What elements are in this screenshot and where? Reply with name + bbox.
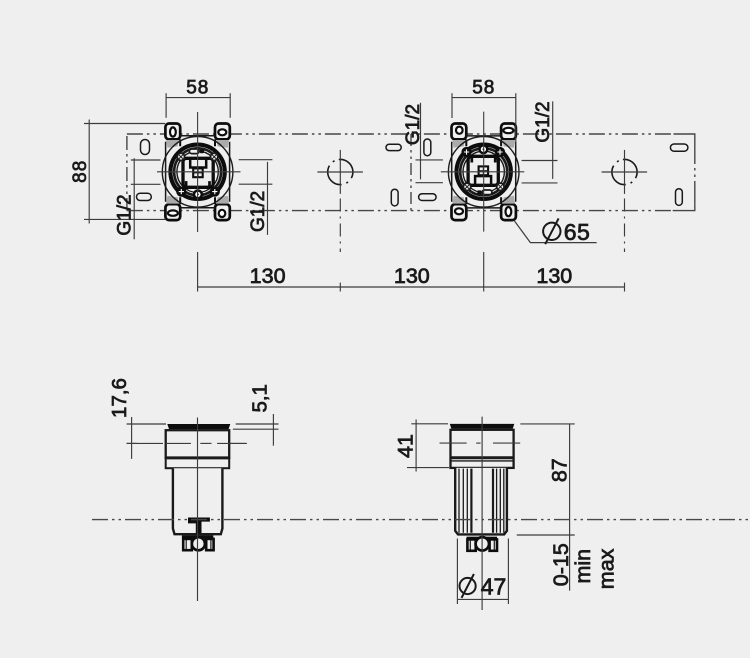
- svg-text:max: max: [595, 548, 619, 589]
- rail slot A (vertical, left): [141, 140, 150, 155]
- G1/2 port callout valve2 left: [403, 103, 443, 183]
- side view A: valve body: [173, 468, 223, 534]
- svg-text:88: 88: [70, 160, 91, 183]
- dimension 41 (side view B): [393, 420, 449, 472]
- wall plane phantom centerline: [92, 519, 748, 521]
- side view A: tightening key mark: [188, 518, 210, 534]
- svg-text:G1/2: G1/2: [403, 104, 424, 145]
- G1/2 port callout valve1 left: [114, 158, 160, 239]
- rail slot D (vertical, mid): [424, 139, 431, 156]
- side view A: outlet fitting: [182, 535, 214, 550]
- chain dimension 130/130/130: [198, 252, 625, 292]
- svg-text:58: 58: [472, 78, 495, 99]
- dimension 58 (valve 2): [452, 78, 516, 146]
- rail slot C (horizontal, mid-left): [386, 144, 401, 150]
- svg-text:65: 65: [564, 219, 591, 245]
- side view A: trim cap: [166, 424, 231, 468]
- G1/2 port callout valve2 right: [522, 101, 558, 183]
- svg-text:0-15: 0-15: [549, 543, 573, 586]
- dimension 87 and 0-15 min max (side view B): [517, 424, 619, 591]
- svg-text:58: 58: [186, 78, 209, 99]
- rail slot G (horizontal, right): [670, 144, 688, 151]
- rail slot B (horizontal, left): [137, 193, 152, 200]
- G1/2 port callout valve1 right: [239, 160, 273, 235]
- side view B: cap dashed centerline: [440, 442, 521, 444]
- dimension 17,6 (side view A): [108, 378, 166, 459]
- rail slot F (horizontal, mid-low): [419, 194, 437, 201]
- side view A vertical centerline: [197, 418, 199, 602]
- future hole position 1 (crosshair): [317, 150, 363, 252]
- future hole position 2 (crosshair): [602, 150, 648, 252]
- svg-text:87: 87: [548, 458, 572, 482]
- svg-text:G1/2: G1/2: [248, 191, 269, 232]
- dimension 58 (valve 1): [166, 78, 230, 118]
- dimension dia 47 (side view B): [457, 539, 508, 605]
- svg-text:min: min: [571, 549, 595, 584]
- svg-text:5,1: 5,1: [248, 384, 271, 413]
- mounting rail phantom outline: [127, 134, 695, 211]
- svg-text:130: 130: [250, 264, 286, 288]
- side view B vertical centerline: [481, 417, 483, 610]
- dimension 5,1 (side view A): [230, 384, 279, 446]
- side view B: outlet fitting: [467, 537, 497, 551]
- svg-text:41: 41: [393, 434, 417, 458]
- side view B: ribbed valve body: [455, 468, 507, 535]
- svg-text:G1/2: G1/2: [114, 194, 135, 235]
- rail slot H (vertical, right): [676, 189, 683, 206]
- svg-text:130: 130: [394, 264, 430, 288]
- dimension 88 (plate height): [70, 120, 165, 224]
- svg-text:G1/2: G1/2: [533, 101, 554, 142]
- svg-text:47: 47: [481, 574, 507, 600]
- diameter 65 leader and label: [515, 218, 597, 244]
- valve unit 2 (front view, rotated 180): [441, 112, 524, 232]
- valve unit 1 (front view): [157, 112, 241, 232]
- rail slot E (vertical, mid-low): [391, 189, 398, 206]
- side view B: trim cap: [450, 424, 515, 468]
- side view A: cap dashed centerline: [127, 442, 246, 444]
- svg-text:17,6: 17,6: [108, 378, 131, 418]
- svg-text:130: 130: [536, 264, 572, 288]
